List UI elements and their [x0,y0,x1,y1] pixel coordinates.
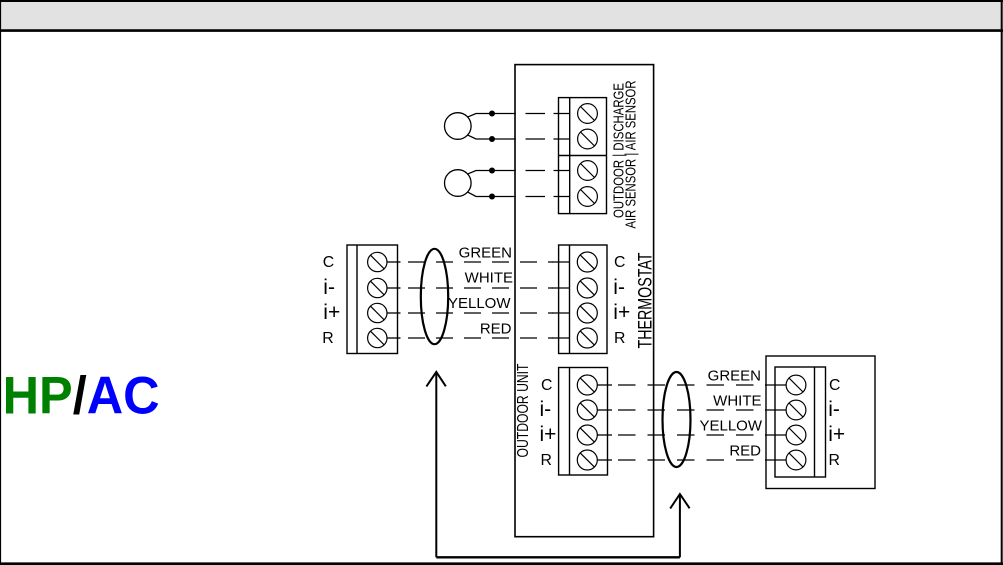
wire i+ (outdoor unit to remote) [598,434,787,436]
svg-text:RED: RED [729,443,761,460]
screw TB1-2 [578,129,598,149]
cable bundle ellipse 2 [663,372,691,467]
wire connector bottom [436,556,680,558]
svg-text:C: C [323,254,334,271]
screw TB3-C [577,252,597,272]
wire C (left to thermostat) [387,261,570,263]
wire sensor row 2 [492,138,570,140]
screw TB5-R [786,450,806,470]
sensor probe S1 (discharge air sensor) [445,113,493,140]
svg-text:WHITE: WHITE [465,269,513,286]
svg-text:HP/AC: HP/AC [3,366,160,425]
terminal block TB5 strip [775,367,826,477]
svg-text:AIR SENSOR | AIR SENSOR: AIR SENSOR | AIR SENSOR [622,80,639,228]
svg-text:YELLOW: YELLOW [699,418,762,435]
sensor probe S2 (outdoor air sensor) [445,170,493,197]
wire R (left to thermostat) [387,337,570,339]
svg-text:i-: i- [540,398,552,421]
screw TB3-i+ [577,303,597,323]
screw TB2-i- [368,278,387,297]
terminal block TB4 (outdoor unit) [559,368,608,476]
screw TB3-R [577,328,597,348]
svg-text:i-: i- [613,276,625,299]
arrow 1 (left, up) [426,372,445,557]
svg-text:i-: i- [323,276,335,299]
screw TB4-i- [577,400,597,420]
svg-text:GREEN: GREEN [708,368,761,385]
junction dot S2 bottom lead [489,194,495,200]
terminal block TB5 (remote, right) outer box [766,356,875,489]
svg-text:i+: i+ [828,423,845,446]
junction dot S2 top lead [489,168,495,174]
arrow 2 (right, up) [670,494,689,557]
screw TB2-R [368,328,387,347]
screw TB4-R [577,450,597,470]
cable bundle ellipse 1 [421,249,448,344]
svg-text:RED: RED [480,321,512,338]
screw TB3-i- [577,278,597,298]
terminal block TB3 (thermostat) [559,245,607,354]
junction dot S1 top lead [489,111,495,117]
screw TB1-3 [578,161,598,181]
wire i+ (left to thermostat) [387,312,570,314]
svg-text:R: R [541,452,552,469]
screw TB5-i- [786,400,806,420]
svg-text:i+: i+ [540,423,557,446]
svg-text:i-: i- [828,398,840,421]
svg-text:OUTDOOR UNIT: OUTDOOR UNIT [515,363,532,457]
wire i- (outdoor unit to remote) [598,409,787,411]
title bar [0,2,1003,31]
wire sensor row 4 [492,196,570,198]
svg-text:C: C [541,377,552,394]
wire sensor row 1 [492,113,570,115]
svg-text:YELLOW: YELLOW [448,295,511,312]
wire i- (left to thermostat) [387,287,570,289]
svg-text:WHITE: WHITE [713,393,761,410]
terminal block TB1 (air sensors) [559,98,607,214]
svg-text:C: C [614,254,625,271]
svg-text:i+: i+ [613,301,630,324]
svg-text:i+: i+ [323,301,340,324]
screw TB5-i+ [786,425,806,445]
screw TB4-C [577,375,597,395]
svg-text:R: R [322,330,333,347]
screw TB5-C [786,375,806,395]
terminal block TB2 (wall, left) [347,245,398,354]
screw TB1-4 [578,187,598,207]
wire C (outdoor unit to remote) [598,384,787,386]
svg-text:R: R [614,330,625,347]
junction dot S1 bottom lead [489,136,495,142]
svg-text:THERMOSTAT: THERMOSTAT [635,252,656,348]
svg-text:GREEN: GREEN [459,245,512,262]
thermostat unit enclosure box [515,65,654,537]
screw TB2-i+ [368,303,387,322]
svg-text:C: C [829,377,840,394]
screw TB1-1 [578,104,598,124]
svg-text:R: R [829,452,840,469]
wire R (outdoor unit to remote) [598,459,787,461]
wire sensor row 3 [492,170,570,172]
screw TB4-i+ [577,425,597,445]
screw TB2-C [368,252,387,271]
